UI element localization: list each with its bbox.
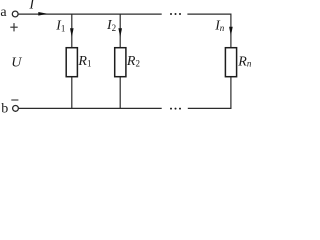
bottom ellipsis dots bbox=[170, 108, 181, 110]
node a terminal circle bbox=[12, 11, 18, 17]
svg-text:R1: R1 bbox=[77, 54, 91, 69]
wire top rail right segment bbox=[187, 13, 231, 15]
svg-text:I2: I2 bbox=[106, 17, 116, 33]
wire bottom rail left segment bbox=[19, 107, 162, 109]
current I2 arrowhead bbox=[118, 28, 122, 37]
resistor R2 bbox=[115, 48, 126, 77]
node b terminal circle bbox=[13, 106, 19, 112]
svg-text:In: In bbox=[214, 18, 225, 34]
wire bottom rail right segment bbox=[188, 107, 232, 109]
svg-text:I1: I1 bbox=[55, 18, 65, 34]
top ellipsis dots bbox=[170, 13, 181, 15]
svg-text:R2: R2 bbox=[126, 54, 140, 69]
resistor R1 bbox=[66, 48, 77, 77]
svg-text:Rn: Rn bbox=[237, 55, 252, 70]
current In arrowhead bbox=[229, 27, 233, 36]
plus polarity mark bbox=[10, 23, 17, 31]
wire branch 2 vertical bbox=[119, 14, 121, 109]
svg-text:b: b bbox=[1, 102, 8, 116]
wire top rail left segment bbox=[18, 13, 162, 15]
svg-text:a: a bbox=[0, 5, 7, 20]
svg-text:U: U bbox=[11, 55, 22, 70]
current I1 arrowhead bbox=[70, 28, 74, 37]
wire branch n vertical bbox=[230, 14, 232, 109]
svg-text:I: I bbox=[28, 0, 35, 13]
resistor Rn bbox=[225, 48, 236, 77]
wire branch 1 vertical bbox=[71, 14, 73, 109]
minus polarity mark bbox=[11, 99, 18, 101]
current I arrowhead bbox=[38, 12, 47, 16]
